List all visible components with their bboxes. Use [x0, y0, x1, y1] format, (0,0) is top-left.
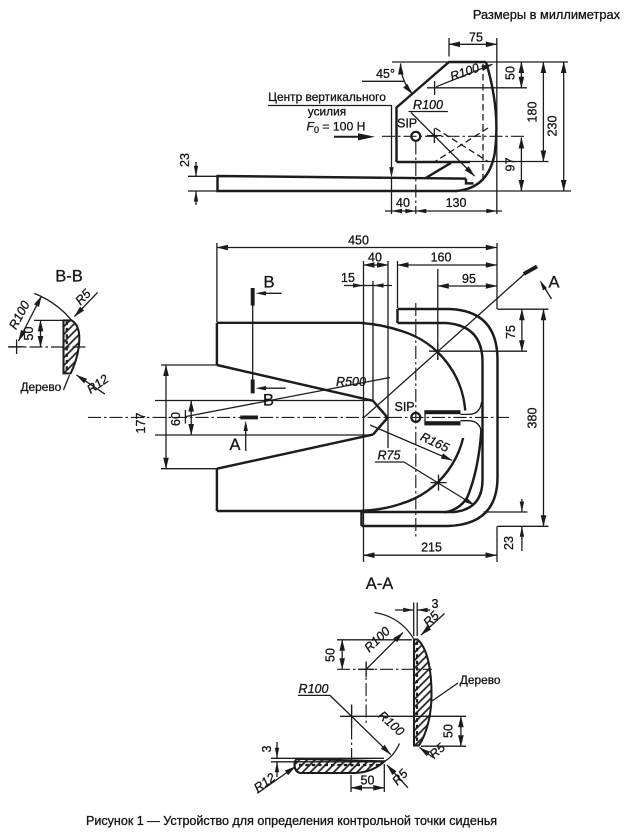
svg-text:3: 3 — [260, 745, 274, 752]
R100 centre cross upper — [427, 87, 527, 89]
dim 230 — [563, 62, 565, 191]
svg-text:160: 160 — [431, 251, 452, 265]
dim 215 — [364, 554, 497, 556]
svg-text:Дерево: Дерево — [460, 673, 501, 687]
svg-text:усилия: усилия — [308, 105, 346, 119]
horizontal centreline — [88, 416, 509, 418]
dim 180 — [542, 62, 544, 162]
dim 50 right — [520, 62, 522, 88]
R100 radius leader — [19, 296, 42, 341]
section mark B upper — [251, 288, 255, 306]
seat base bar — [218, 176, 467, 191]
svg-text:3: 3 — [432, 597, 439, 611]
dim 75 right — [498, 308, 549, 310]
R5 bottom right leader — [420, 748, 434, 758]
R12 leader — [257, 767, 295, 794]
svg-text:75: 75 — [504, 325, 518, 339]
R100 rotated leader upper — [366, 633, 403, 670]
R100 surface arc top — [375, 613, 414, 639]
funnel link upper — [461, 402, 482, 414]
R100 upper leader — [436, 64, 493, 87]
section line B-B — [252, 306, 254, 380]
beak point — [373, 401, 388, 435]
svg-text:215: 215 — [421, 541, 442, 555]
slot edge lower — [155, 434, 373, 436]
svg-text:40: 40 — [368, 251, 382, 265]
vertical centreline through SIP — [415, 303, 417, 537]
svg-text:R12: R12 — [251, 770, 278, 795]
svg-text:R100: R100 — [448, 61, 481, 84]
svg-text:B: B — [264, 274, 275, 292]
R5 leader right tip — [387, 765, 408, 788]
R100 surface arc — [34, 293, 71, 320]
cross on R165 arc upper — [429, 350, 527, 352]
R75 leader through centre cross — [404, 462, 474, 505]
section mark A right — [524, 266, 537, 274]
SIP point circle — [411, 132, 420, 141]
svg-text:130: 130 — [446, 196, 467, 210]
C-arm inner edge — [362, 323, 483, 512]
svg-text:177: 177 — [134, 413, 148, 434]
svg-text:B-B: B-B — [55, 268, 83, 286]
svg-text:A: A — [230, 436, 241, 454]
dim 97 — [520, 138, 522, 192]
seat back pan outline — [397, 62, 487, 162]
R100 lower leader — [411, 113, 475, 177]
svg-text:75: 75 — [469, 31, 483, 45]
C-arm outer edge — [362, 309, 498, 526]
svg-text:R5: R5 — [73, 287, 94, 308]
svg-text:R500: R500 — [336, 375, 366, 389]
svg-text:R12: R12 — [84, 372, 111, 397]
dim 40 / 130 bottom — [385, 210, 502, 212]
svg-text:Размеры в миллиметрах: Размеры в миллиметрах — [473, 7, 621, 22]
taper lower edge — [217, 435, 373, 469]
svg-text:97: 97 — [504, 158, 518, 172]
R5 leader — [75, 292, 98, 316]
svg-text:R5: R5 — [427, 740, 448, 761]
dim 160 — [397, 261, 399, 308]
svg-text:SIP: SIP — [397, 117, 417, 131]
ply dashed line — [66, 322, 68, 373]
dim 450 — [216, 243, 218, 322]
svg-text:380: 380 — [526, 408, 540, 429]
dim 50 right — [421, 745, 466, 747]
right edge R100 curve + corner arc — [456, 62, 496, 191]
arm end caps — [396, 309, 398, 323]
dim 3 left — [276, 742, 278, 758]
ply lines — [271, 757, 384, 759]
svg-text:SIP: SIP — [395, 400, 415, 414]
centreline — [8, 346, 87, 348]
funnel link lower — [461, 421, 482, 433]
section mark A left — [240, 415, 258, 419]
svg-text:R5: R5 — [390, 767, 411, 788]
svg-text:R75: R75 — [378, 449, 401, 463]
SIP circle plan — [411, 413, 420, 422]
force arrow F0 — [334, 136, 362, 138]
bar step — [466, 179, 474, 184]
svg-text:50: 50 — [504, 66, 518, 80]
lower centre cross — [340, 715, 466, 717]
SIP horizontal centreline — [382, 135, 527, 137]
svg-text:23: 23 — [502, 536, 516, 550]
dim 75 top — [448, 38, 450, 57]
svg-text:A-A: A-A — [366, 575, 394, 593]
svg-text:R100: R100 — [375, 708, 407, 738]
R5 top leader — [421, 614, 445, 636]
cross at R100 lower centre — [427, 135, 442, 137]
dim 60 left — [190, 401, 192, 436]
hidden dashed X brace — [435, 128, 488, 162]
svg-text:45°: 45° — [376, 67, 395, 81]
svg-text:50: 50 — [22, 327, 36, 341]
dim 95 — [437, 269, 439, 360]
svg-text:Дерево: Дерево — [21, 380, 62, 394]
R165 leader — [370, 425, 452, 460]
dim 177 left — [161, 364, 217, 366]
upper centre cross — [358, 668, 374, 670]
dim 50 bottom — [350, 775, 352, 792]
dim 50 upper — [341, 640, 343, 670]
extension pan bottom — [470, 161, 549, 163]
ply dashed vertical — [416, 642, 418, 745]
R100 long leader — [330, 695, 391, 754]
centreline through lower cross — [351, 705, 353, 771]
force label leader — [268, 106, 392, 176]
svg-text:60: 60 — [169, 412, 183, 426]
right extent extension line — [496, 38, 498, 214]
svg-text:40: 40 — [396, 196, 410, 210]
vertical wood profile hatched — [414, 640, 432, 746]
centre cross — [9, 346, 24, 348]
extension bar bottom — [457, 190, 571, 192]
taper upper edge — [217, 365, 373, 401]
svg-text:15: 15 — [341, 271, 355, 285]
R75 corner arc — [444, 430, 481, 512]
svg-text:95: 95 — [462, 272, 476, 286]
centreline vertical — [365, 662, 367, 724]
pan bottom edge — [397, 161, 471, 163]
dim 50 — [34, 319, 63, 321]
R75 centre cross — [431, 482, 447, 484]
top edge extension left — [392, 61, 449, 63]
section mark B lower — [251, 379, 255, 393]
dim 23 left — [188, 175, 217, 177]
svg-text:Рисунок 1 — Устройство для опр: Рисунок 1 — Устройство для определения к… — [86, 814, 497, 828]
svg-text:R100: R100 — [413, 98, 443, 112]
dim 15 — [372, 281, 374, 401]
svg-text:R165: R165 — [418, 430, 451, 455]
svg-text:Центр вертикального: Центр вертикального — [268, 90, 386, 104]
dim 40 — [363, 261, 365, 562]
R500 surface line — [185, 378, 390, 417]
dim 3 top — [413, 603, 415, 637]
clamp bar filled bands — [425, 410, 461, 414]
svg-text:180: 180 — [526, 102, 540, 123]
svg-text:A: A — [549, 274, 560, 292]
svg-text:B: B — [263, 392, 274, 410]
wood profile hatched — [64, 320, 80, 373]
R12 leader — [77, 375, 105, 394]
dim 23 plan — [484, 511, 528, 513]
top edge extension right — [486, 61, 568, 63]
plate left edge bottom — [216, 469, 218, 511]
SIP vertical centreline — [415, 142, 417, 215]
dim 380 — [543, 309, 545, 526]
slot edge upper — [155, 400, 373, 402]
top tip extension — [337, 639, 412, 641]
horizontal wood profile hatched — [295, 759, 385, 773]
svg-text:23: 23 — [178, 153, 192, 167]
svg-text:50: 50 — [361, 774, 375, 788]
plate left edge top — [216, 323, 218, 365]
svg-text:R5: R5 — [421, 609, 442, 630]
section A-A slanted line — [364, 270, 530, 418]
svg-text:230: 230 — [546, 116, 560, 137]
svg-text:50: 50 — [442, 724, 456, 738]
seat plate outline with R165 boundary — [217, 323, 466, 511]
45 degree angle arc — [401, 64, 413, 95]
wedge line — [426, 163, 452, 178]
svg-text:50: 50 — [324, 648, 338, 662]
hidden dashed vertical — [482, 64, 484, 184]
svg-text:R100: R100 — [299, 682, 329, 696]
svg-text:450: 450 — [348, 234, 369, 248]
svg-text:F0 = 100 Н: F0 = 100 Н — [307, 120, 366, 136]
centreline horizontal upper — [337, 668, 432, 670]
